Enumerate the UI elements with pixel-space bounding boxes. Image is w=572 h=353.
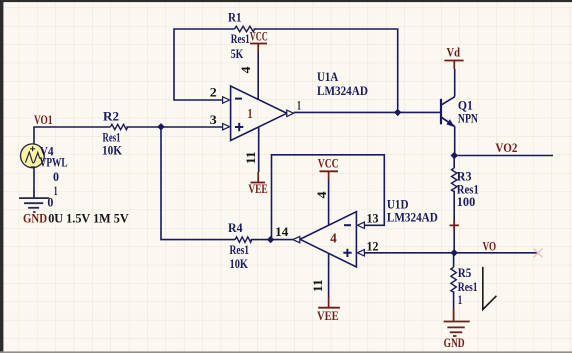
pin 14 output arrow xyxy=(293,236,300,242)
op-amp U1A xyxy=(231,86,287,141)
svg-text:VO: VO xyxy=(483,238,497,253)
svg-text:LM324AD: LM324AD xyxy=(387,210,438,225)
pin 13 arrow xyxy=(357,222,364,228)
wire V4 to ground xyxy=(33,168,35,190)
svg-text:GND: GND xyxy=(444,335,465,350)
svg-text:1: 1 xyxy=(297,97,301,112)
power port VCC above U1A xyxy=(250,29,268,53)
svg-text:3: 3 xyxy=(210,112,218,127)
svg-text:R1: R1 xyxy=(228,9,242,24)
pin 1 output arrow xyxy=(287,110,294,116)
wire VO2 node to R3 xyxy=(453,156,455,169)
wire branch down to R4 xyxy=(161,127,235,240)
op-amp U1D (mirrored) xyxy=(300,212,356,267)
svg-text:R4: R4 xyxy=(228,220,243,235)
resistor R2 xyxy=(110,124,127,129)
svg-text:VCC: VCC xyxy=(250,29,268,44)
probe marker (checkmark) xyxy=(483,267,497,310)
svg-text:1: 1 xyxy=(248,107,253,122)
svg-text:VEE: VEE xyxy=(248,181,267,196)
wire R3 to VO node xyxy=(453,191,455,253)
wire VO1 from source V4 to R2 xyxy=(34,127,110,144)
ground GND under V4 xyxy=(19,190,49,212)
wire VO node to R5 xyxy=(453,253,455,267)
pin 2 arrow xyxy=(223,97,230,103)
svg-text:1: 1 xyxy=(54,183,58,198)
svg-text:12: 12 xyxy=(367,239,379,254)
power port VCC above U1D xyxy=(318,156,339,181)
faint cross at VO wire end xyxy=(534,249,543,258)
wire pin2 feedback to R1 xyxy=(174,29,235,100)
Q1 emitter arrowhead xyxy=(446,119,455,127)
svg-text:Vd: Vd xyxy=(447,45,461,60)
svg-text:4: 4 xyxy=(314,191,329,199)
wire pin 11 (U1D VEE pin) xyxy=(328,253,330,297)
junction node at R2 / R4 branch xyxy=(157,123,164,130)
wire VO from U1D pin12 to right xyxy=(365,252,539,254)
svg-text:4: 4 xyxy=(330,231,337,246)
junction node at U1D pin14 feedback xyxy=(267,236,274,243)
svg-text:4: 4 xyxy=(238,66,253,74)
svg-text:R5: R5 xyxy=(458,265,472,280)
resistor R3 (vertical) xyxy=(452,168,457,192)
svg-text:5K: 5K xyxy=(231,46,244,61)
svg-text:Res1: Res1 xyxy=(231,31,250,46)
ground GND right xyxy=(444,308,470,336)
sheet border left xyxy=(0,0,3,352)
wire R4 to U1D pin 14 xyxy=(251,239,293,241)
svg-text:2: 2 xyxy=(210,85,217,100)
svg-text:13: 13 xyxy=(367,211,379,226)
wire R5 to ground xyxy=(453,291,455,308)
svg-text:LM324AD: LM324AD xyxy=(317,83,368,98)
power port VEE below U1A xyxy=(248,172,267,196)
power port Vd xyxy=(444,45,463,70)
svg-text:NPN: NPN xyxy=(458,111,479,126)
no-ERC marker (red cross) xyxy=(450,221,459,230)
svg-text:10K: 10K xyxy=(102,143,123,158)
svg-text:10K: 10K xyxy=(230,256,249,271)
wire R2 to op-amp pin 3 xyxy=(126,126,222,128)
svg-text:1: 1 xyxy=(458,292,463,307)
wire R1 to output node xyxy=(254,29,398,112)
wire pin 4 (U1A VCC pin) xyxy=(257,52,259,99)
sheet border bottom xyxy=(0,351,572,353)
svg-text:0: 0 xyxy=(53,169,59,184)
svg-text:VO1: VO1 xyxy=(34,112,53,127)
transistor Q1 xyxy=(441,97,455,127)
svg-text:0: 0 xyxy=(47,195,53,210)
svg-text:GND: GND xyxy=(23,210,47,225)
resistor R5 (vertical) xyxy=(451,267,456,292)
pin 3 arrow xyxy=(223,124,230,130)
junction node at output xyxy=(394,109,401,116)
svg-text:100: 100 xyxy=(457,194,475,209)
wire Q1 emitter down to VO2 node xyxy=(454,126,456,155)
sheet border top xyxy=(0,0,572,2)
svg-text:Res1: Res1 xyxy=(230,242,250,257)
wire pin 11 (U1A VEE pin) xyxy=(258,127,260,172)
svg-text:0U 1.5V 1M 5V: 0U 1.5V 1M 5V xyxy=(48,211,129,226)
svg-text:11: 11 xyxy=(310,279,325,292)
resistor R1 xyxy=(235,26,255,32)
svg-text:R2: R2 xyxy=(103,108,119,123)
svg-text:14: 14 xyxy=(275,224,289,239)
wire U1D feedback loop pin14 to pin13 xyxy=(272,155,385,240)
svg-text:VO2: VO2 xyxy=(495,140,517,155)
wire Q1 collector to Vd xyxy=(454,69,456,97)
svg-text:VEE: VEE xyxy=(317,308,339,323)
svg-text:U1A: U1A xyxy=(317,69,339,84)
junction node VO xyxy=(451,249,458,256)
wire VO2 xyxy=(454,155,553,157)
power port VEE below U1D xyxy=(317,297,340,323)
svg-text:VCC: VCC xyxy=(318,156,339,171)
junction node VO2 xyxy=(451,152,458,159)
wire pin 4 (U1D VCC pin) xyxy=(328,180,330,225)
voltage source V4 (VPWL) xyxy=(21,144,45,168)
wire output pin1 to Q1 base xyxy=(294,111,441,113)
pin 12 arrow xyxy=(357,250,364,256)
svg-text:11: 11 xyxy=(243,151,258,164)
svg-text:VPWL: VPWL xyxy=(40,155,68,170)
resistor R4 xyxy=(235,237,252,242)
